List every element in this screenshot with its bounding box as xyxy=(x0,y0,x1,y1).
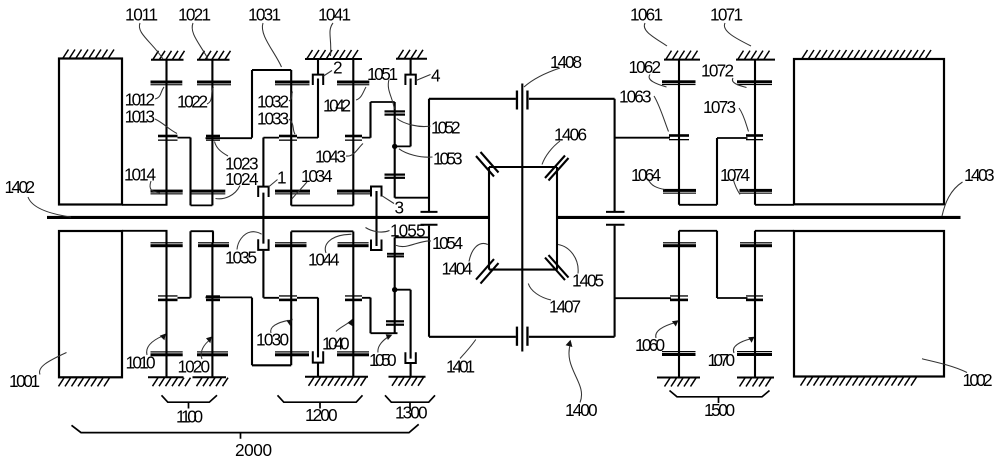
svg-text:1020: 1020 xyxy=(178,356,211,376)
svg-text:1: 1 xyxy=(277,167,287,187)
svg-text:1061: 1061 xyxy=(630,5,663,25)
svg-text:1030: 1030 xyxy=(256,330,289,350)
svg-text:1001: 1001 xyxy=(9,371,40,391)
svg-text:3: 3 xyxy=(395,197,405,217)
svg-text:2000: 2000 xyxy=(235,440,272,460)
svg-text:1400: 1400 xyxy=(565,400,598,420)
svg-text:1100: 1100 xyxy=(176,407,203,427)
svg-text:1063: 1063 xyxy=(619,86,652,106)
svg-text:1407: 1407 xyxy=(549,297,581,317)
svg-text:1011: 1011 xyxy=(125,5,158,25)
svg-text:1013: 1013 xyxy=(125,107,156,127)
svg-text:1035: 1035 xyxy=(225,247,257,267)
svg-text:4: 4 xyxy=(431,66,441,86)
svg-text:1033: 1033 xyxy=(257,109,289,129)
svg-text:1034: 1034 xyxy=(301,166,333,186)
svg-text:1021: 1021 xyxy=(178,5,211,25)
svg-text:1040: 1040 xyxy=(322,334,350,354)
svg-text:1300: 1300 xyxy=(395,403,428,423)
svg-text:1053: 1053 xyxy=(433,149,463,169)
svg-text:1062: 1062 xyxy=(629,57,662,77)
svg-text:2: 2 xyxy=(333,58,343,78)
svg-text:1406: 1406 xyxy=(554,125,587,145)
svg-text:1055: 1055 xyxy=(390,221,426,241)
svg-text:1404: 1404 xyxy=(442,259,473,279)
svg-text:1050: 1050 xyxy=(369,350,397,370)
svg-text:1071: 1071 xyxy=(710,5,743,25)
svg-text:1405: 1405 xyxy=(572,271,604,291)
svg-text:1002: 1002 xyxy=(963,370,993,390)
svg-text:1074: 1074 xyxy=(720,165,750,185)
svg-text:1010: 1010 xyxy=(126,353,156,373)
svg-text:1070: 1070 xyxy=(708,350,736,370)
svg-text:1064: 1064 xyxy=(631,165,661,185)
svg-text:1042: 1042 xyxy=(323,96,351,116)
svg-text:1500: 1500 xyxy=(704,400,735,420)
svg-text:1031: 1031 xyxy=(248,5,281,25)
svg-text:1041: 1041 xyxy=(318,5,351,25)
svg-text:1072: 1072 xyxy=(701,60,734,80)
svg-text:1024: 1024 xyxy=(225,169,259,189)
svg-text:1060: 1060 xyxy=(635,335,665,355)
svg-text:1051: 1051 xyxy=(367,64,398,84)
svg-text:1044: 1044 xyxy=(308,250,340,270)
svg-text:1022: 1022 xyxy=(177,92,208,112)
svg-text:1043: 1043 xyxy=(315,147,346,167)
svg-text:1073: 1073 xyxy=(703,97,736,117)
svg-text:1054: 1054 xyxy=(432,233,463,253)
svg-text:1200: 1200 xyxy=(305,405,338,425)
svg-text:1402: 1402 xyxy=(5,177,36,197)
svg-text:1401: 1401 xyxy=(446,357,475,377)
svg-text:1403: 1403 xyxy=(964,165,995,185)
svg-text:1014: 1014 xyxy=(124,165,156,185)
svg-text:1408: 1408 xyxy=(550,52,582,72)
svg-text:1052: 1052 xyxy=(431,118,461,138)
